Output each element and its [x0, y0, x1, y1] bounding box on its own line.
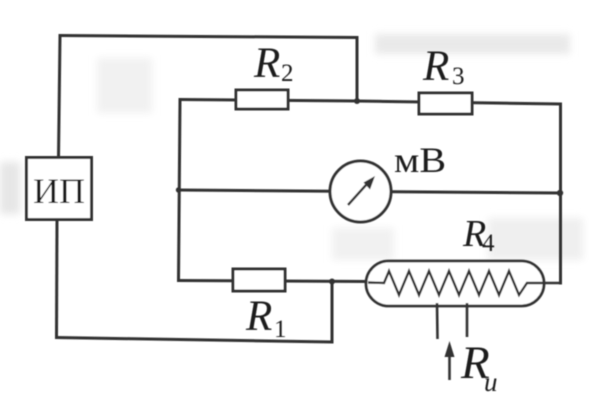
wire galvanometer branch — [179, 190, 561, 193]
node D junction dot — [329, 279, 335, 285]
wire top horizontal — [60, 36, 357, 38]
millivoltmeter PV — [330, 161, 391, 222]
label R1 — [245, 293, 287, 343]
wire riser to R1 node — [331, 282, 334, 343]
svg-text:3: 3 — [452, 63, 465, 90]
node B junction dot — [354, 98, 360, 104]
label R2 — [253, 40, 294, 87]
svg-text:мВ: мВ — [394, 140, 446, 180]
wire right outer vertical — [559, 104, 562, 283]
wire inner left vertical — [179, 100, 181, 281]
rheostat slider tap leads — [437, 303, 467, 339]
node C junction dot — [557, 190, 563, 196]
label Rи — [460, 337, 498, 397]
svg-text:R: R — [245, 293, 272, 340]
wire drop from top to node B — [356, 38, 359, 102]
wire bottom horizontal — [57, 338, 333, 343]
svg-text:R: R — [253, 40, 280, 87]
power source ИП — [27, 158, 92, 220]
svg-text:ИП: ИП — [33, 171, 85, 211]
wire R2 branch — [180, 100, 357, 102]
label R4 — [462, 213, 495, 257]
label R3 — [422, 43, 465, 90]
wire from ИП bottom down — [55, 220, 59, 338]
rheostat R4 — [366, 261, 561, 306]
resistor R1 — [233, 269, 285, 291]
adjustment arrow for Rи — [445, 341, 455, 380]
node A junction dot — [176, 187, 181, 192]
svg-text:и: и — [484, 367, 498, 397]
svg-text:R: R — [422, 43, 449, 90]
wire left outer vertical — [59, 36, 61, 159]
resistor R2 — [236, 90, 288, 109]
svg-text:2: 2 — [281, 60, 294, 87]
svg-text:4: 4 — [482, 230, 495, 257]
svg-text:1: 1 — [274, 316, 287, 343]
wire R1 branch — [179, 281, 367, 282]
resistor R3 — [419, 93, 472, 114]
wire R3 branch — [357, 101, 561, 104]
